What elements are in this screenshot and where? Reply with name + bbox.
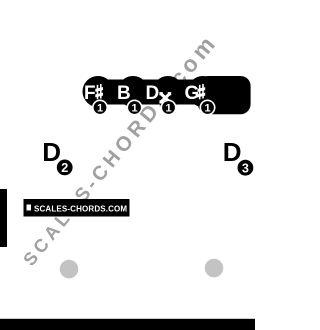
svg-text:1: 1 <box>131 102 137 114</box>
svg-text:D: D <box>42 137 61 167</box>
svg-text:1: 1 <box>204 102 210 114</box>
svg-text:2: 2 <box>61 161 68 175</box>
svg-text:F: F <box>84 83 96 104</box>
svg-text:D: D <box>146 83 160 104</box>
svg-text:3: 3 <box>242 161 249 175</box>
svg-text:B: B <box>117 83 131 104</box>
svg-text:1: 1 <box>165 102 171 114</box>
svg-text:D: D <box>223 137 242 167</box>
svg-text:SCALES-CHORDS.COM: SCALES-CHORDS.COM <box>34 204 127 213</box>
svg-text:1: 1 <box>97 102 103 114</box>
svg-text:G: G <box>185 83 200 104</box>
